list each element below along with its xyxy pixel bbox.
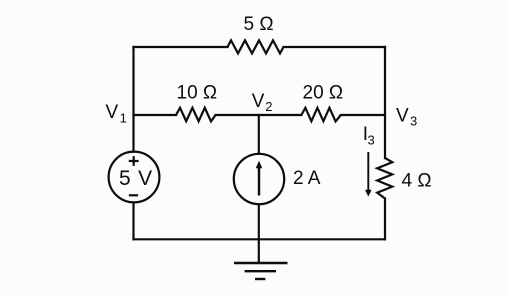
value label 2 A (293, 168, 321, 189)
wire right branch lower (4Ω to bottom wire) (384, 199, 386, 240)
value label 5 Ω (244, 14, 274, 35)
current label I3 (363, 124, 375, 148)
svg-text:4 Ω: 4 Ω (402, 171, 432, 192)
svg-text:2: 2 (265, 99, 272, 114)
svg-text:10 Ω: 10 Ω (177, 83, 218, 104)
wire middle row 20Ω to V3 (341, 114, 385, 116)
value label 10 Ω (177, 83, 218, 104)
current arrow I3 (365, 152, 372, 197)
current source 2 A (234, 154, 284, 204)
value label 20 Ω (303, 83, 344, 104)
resistor 20Ω symbol (301, 108, 341, 122)
wire left branch upper (top wire to V1 to 5V source) (132, 47, 134, 152)
wire top-right segment (284, 46, 386, 48)
svg-text:V: V (396, 106, 409, 127)
svg-text:V: V (106, 102, 119, 123)
voltage source 5 V (109, 152, 160, 203)
value label 5 V (119, 167, 153, 190)
polarity minus sign (129, 194, 138, 196)
node V1 label (106, 102, 127, 126)
svg-text:1: 1 (120, 111, 127, 126)
svg-text:20 Ω: 20 Ω (303, 83, 344, 104)
current source arrow (256, 161, 263, 196)
wire middle branch upper (V2 to 2A source) (258, 115, 260, 154)
resistor 4Ω symbol (377, 158, 392, 199)
resistor 5Ω symbol (228, 40, 284, 53)
wire middle branch lower (2A source to bottom wire) (258, 204, 260, 239)
wire left branch lower (5V source to bottom wire) (132, 202, 134, 239)
svg-text:2 A: 2 A (293, 168, 321, 189)
svg-text:V: V (252, 91, 265, 112)
node V2 label (252, 91, 273, 114)
wire right branch upper (top wire to V3 to 4Ω) (384, 47, 386, 158)
wire ground stem (258, 239, 260, 263)
svg-text:3: 3 (410, 114, 417, 129)
node V3 label (396, 106, 417, 129)
wire top-left segment (134, 46, 228, 48)
wire bottom (134, 238, 386, 240)
svg-text:3: 3 (368, 133, 375, 148)
resistor 10Ω symbol (176, 108, 216, 122)
wire middle row V1 to 10Ω (134, 114, 177, 116)
wire middle row 10Ω to V2 to 20Ω (216, 114, 302, 116)
polarity plus sign (129, 156, 139, 166)
ground (234, 263, 288, 279)
svg-text:5 V: 5 V (119, 167, 153, 190)
svg-text:5 Ω: 5 Ω (244, 14, 274, 35)
value label 4 Ω (402, 171, 432, 192)
